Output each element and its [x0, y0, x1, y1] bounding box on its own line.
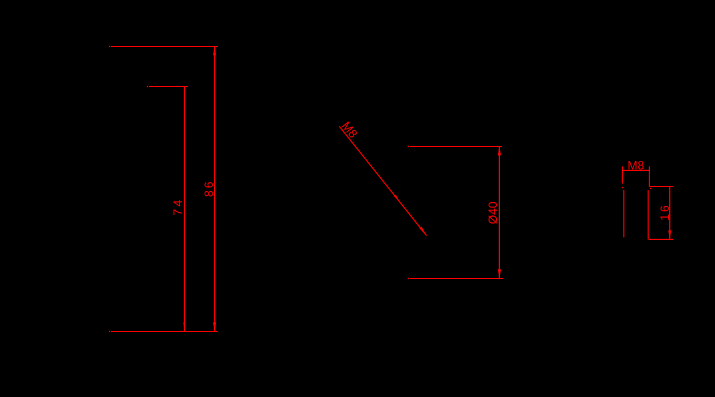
node: defpoint bottom-left [109, 331, 110, 332]
node: defpoint of dim 74 [147, 86, 148, 87]
arrowhead: phi40 top [498, 147, 501, 156]
wire: dimension line 74 (vertical) [184, 87, 186, 332]
wire: bottom extension line of dim phi40 [410, 278, 503, 280]
wire: stud right edge (vertical) [647, 190, 649, 240]
wire: right tick of dim M8 [648, 166, 650, 186]
wire: stud left edge (vertical) [623, 190, 625, 237]
wire: top extension line of dim 74 [149, 86, 188, 88]
arrowhead: dim 16 bottom [668, 230, 671, 239]
wire: top extension line of dim 16 [649, 186, 672, 188]
node: defpoint stud left [622, 187, 623, 188]
arrowhead: dim 86 bottom [213, 322, 216, 331]
node: defpoint top-left [109, 46, 110, 47]
wire: bottom extension line of dim 16 [649, 238, 673, 240]
svg-text:16: 16 [658, 203, 672, 220]
wire: dimension line 86 (vertical) [214, 47, 216, 332]
wire: dimension line 16 (vertical) [669, 187, 671, 240]
wire: bottom extension line (shared) [111, 331, 218, 333]
wire: leader line M8 (diagonal) [339, 126, 426, 235]
arrowhead: phi40 bottom [498, 269, 501, 278]
wire: dimension line M8 (horizontal, right group) [622, 169, 649, 171]
svg-text:M8: M8 [627, 158, 644, 172]
svg-text:Ø40: Ø40 [486, 201, 500, 224]
node: defpoint phi40 top [408, 146, 409, 147]
wire: top extension line of dim 86 [111, 46, 218, 48]
arrowhead: dim 74 bottom [183, 322, 185, 331]
svg-text:86: 86 [202, 180, 216, 197]
arrowhead: leader mid [394, 195, 399, 201]
arrowhead: leader end [420, 227, 427, 236]
arrowhead: dim 86 top [213, 47, 216, 56]
wire: left tick of dim M8 [621, 166, 623, 183]
node: defpoint stud right [650, 188, 651, 189]
node: defpoint phi40 bottom [408, 278, 409, 279]
wire: dimension line phi40 (vertical) [498, 147, 500, 279]
wire: top extension line of dim phi40 [410, 146, 502, 148]
svg-text:74: 74 [171, 197, 185, 215]
